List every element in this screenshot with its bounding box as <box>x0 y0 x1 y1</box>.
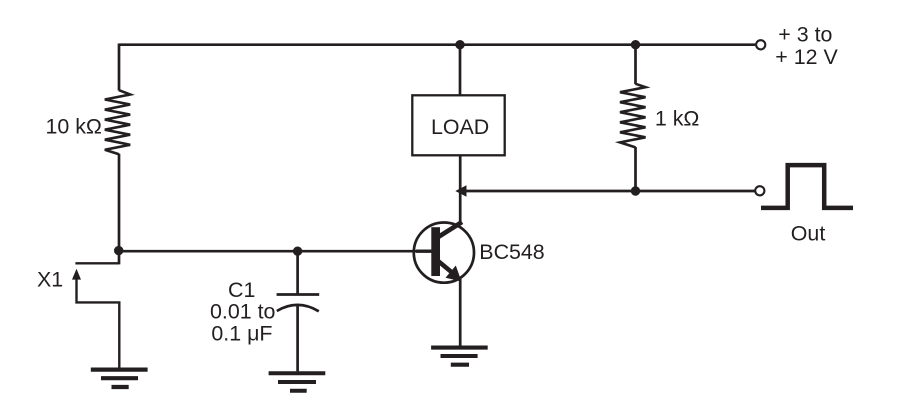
pulse waveform symbol <box>761 165 853 208</box>
svg-text:X1: X1 <box>37 267 63 291</box>
wire 1k lower <box>634 147 637 191</box>
svg-text:10 kΩ: 10 kΩ <box>46 115 102 139</box>
ground X1 <box>91 370 148 387</box>
node 1k bottom junction <box>631 186 640 195</box>
resistor R1 10k <box>105 90 130 154</box>
wire top supply rail <box>119 43 755 46</box>
svg-text:0.01 to: 0.01 to <box>210 300 275 324</box>
wire left branch lower <box>118 154 121 265</box>
node 1k top junction <box>631 40 640 49</box>
transistor Q1 emitter arrowhead <box>446 266 462 282</box>
ground Q1 <box>431 348 488 365</box>
terminal out (open circle) <box>755 186 764 195</box>
transistor Q1 base lead stub <box>416 249 432 252</box>
wire C1 upper <box>296 251 299 293</box>
resistor R2 1k <box>620 84 646 148</box>
terminal supply (open circle) <box>756 40 765 49</box>
label 1 kOhm <box>655 106 700 130</box>
label Out <box>791 222 826 246</box>
transistor Q1 collector stroke <box>438 222 463 238</box>
label X1 <box>37 267 63 291</box>
svg-text:C1: C1 <box>228 278 255 302</box>
ground C1 <box>269 373 326 390</box>
svg-text:1 kΩ: 1 kΩ <box>655 106 700 130</box>
svg-text:+ 12 V: + 12 V <box>775 45 838 69</box>
svg-text:LOAD: LOAD <box>431 115 489 139</box>
wire LOAD top <box>459 45 462 96</box>
node C1 junction <box>293 247 302 256</box>
transistor Q1 emitter stroke <box>438 261 453 273</box>
svg-text:BC548: BC548 <box>479 240 544 264</box>
arrow feedback (points left at collector wire) <box>455 185 466 196</box>
wire left branch upper <box>118 44 121 91</box>
wire out line <box>465 190 755 193</box>
probe X1 arrow <box>72 269 81 280</box>
wire base horizontal <box>119 250 432 253</box>
capacitor C1 top plate <box>277 293 320 296</box>
wire C1 lower <box>296 305 299 372</box>
wire X1 stem <box>77 277 120 368</box>
wire emitter lower <box>459 278 462 348</box>
label C1 value <box>210 278 275 346</box>
svg-text:Out: Out <box>791 222 826 246</box>
label supply voltage <box>775 22 838 69</box>
node LOAD top junction <box>455 40 464 49</box>
wire 1k upper <box>634 44 637 85</box>
svg-text:0.1 μF: 0.1 μF <box>211 322 272 346</box>
transistor Q1 base bar <box>431 227 440 276</box>
label BC548 <box>479 240 544 264</box>
probe X1 contact bar <box>75 262 119 264</box>
capacitor C1 curved plate <box>277 305 319 311</box>
svg-text:+ 3 to: + 3 to <box>778 22 832 46</box>
label 10 kOhm <box>46 115 102 139</box>
LOAD box <box>412 95 504 155</box>
node base junction left <box>114 246 123 255</box>
transistor Q1 circle <box>414 223 474 283</box>
wire collector (LOAD bottom to transistor) <box>459 155 462 225</box>
